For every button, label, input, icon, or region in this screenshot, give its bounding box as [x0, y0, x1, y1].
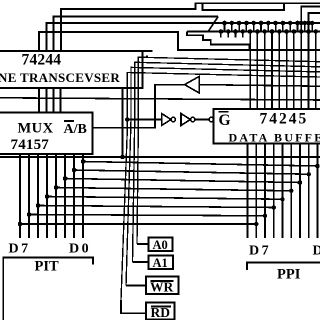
bus line 9 — [20, 223, 256, 225]
wire address bracket 2 — [47, 23, 320, 51]
bus line 7 — [38, 206, 274, 208]
junction dots PPI cascade — [254, 164, 320, 226]
wire RD to inverter chain — [127, 119, 161, 121]
wire data drops to 74245 top pins — [221, 32, 316, 110]
speck — [146, 55, 148, 57]
junction dot RD inverter tap — [125, 117, 129, 121]
svg-text:A/B: A/B — [64, 122, 87, 137]
wire A0 stub — [137, 243, 149, 245]
bus line 2 — [83, 162, 318, 167]
PIT bracket — [3, 258, 93, 320]
bus line 4 — [65, 179, 300, 183]
wire right edge entry 1 — [301, 7, 320, 32]
svg-text:A0: A0 — [153, 238, 168, 252]
svg-text:PIT: PIT — [35, 259, 60, 275]
wire WR stub — [126, 285, 146, 287]
wire bus rail B — [187, 31, 320, 33]
register box WR — [146, 277, 179, 295]
wire jog branch — [203, 3, 285, 10]
bus line 6 — [47, 197, 283, 200]
bus line 8 — [29, 215, 265, 216]
svg-text:74245: 74245 — [260, 111, 309, 128]
wire right edge entry 2 — [309, 13, 320, 32]
inverter U6a — [162, 114, 176, 126]
buffer U5 (left pointing) — [93, 77, 320, 128]
wire A1 stub — [133, 261, 149, 263]
svg-text:G: G — [219, 112, 231, 129]
svg-text:D0: D0 — [69, 242, 91, 257]
svg-text:74157: 74157 — [11, 137, 50, 153]
inverter U6b — [181, 114, 195, 126]
wire 74244 to mux pins — [39, 88, 61, 113]
wire control line RD — [121, 73, 320, 301]
svg-text:A1: A1 — [153, 256, 168, 270]
svg-text:74244: 74244 — [22, 52, 62, 69]
data buffer U3 74245 — [214, 109, 320, 144]
register box RD — [146, 303, 175, 320]
wire bus diagonal — [208, 17, 218, 32]
junction stubs rail A to rail B — [225, 23, 313, 32]
junction dots rail A — [222, 21, 314, 26]
bus line 1 — [0, 156, 320, 158]
svg-text:D7: D7 — [9, 242, 31, 257]
register box A0 — [149, 238, 173, 253]
wire 74244 tap to bus line 1 — [122, 88, 124, 157]
svg-text:PPI: PPI — [277, 267, 301, 283]
wire address bracket 4 — [61, 3, 320, 51]
wire control line WR — [126, 67, 320, 285]
mux U2 74157 — [0, 113, 93, 155]
svg-text:DATA BUFFER: DATA BUFFER — [229, 130, 320, 144]
wire box top stub — [143, 50, 153, 52]
PPI bracket — [247, 263, 320, 271]
junction dot bus line 1 — [120, 155, 124, 159]
junction dots rail B — [219, 29, 319, 34]
pin bubble G — [209, 117, 213, 121]
wire horizontal mid bus — [0, 98, 320, 100]
wire address bracket 3 — [54, 17, 219, 52]
svg-text:D7: D7 — [249, 244, 271, 259]
wire control line A1 — [133, 62, 320, 262]
wire mux output pins to PIT — [20, 154, 83, 238]
register box A1 — [149, 256, 174, 271]
bus line 3 — [74, 170, 309, 174]
wire bus staircase — [187, 32, 250, 51]
wire address bracket 1 — [39, 32, 320, 51]
bus line 5 — [56, 188, 291, 191]
svg-text:D: D — [313, 244, 320, 259]
junction dots PIT cascade — [18, 159, 85, 226]
svg-text:MUX: MUX — [18, 121, 54, 137]
svg-text:NE TRANSCEVSER: NE TRANSCEVSER — [0, 70, 120, 85]
wire 74245 pins to PPI — [248, 144, 318, 239]
wire RD jog to box — [121, 300, 146, 313]
wire inverter chain to G pin — [195, 119, 209, 121]
line transceiver U1 74244 — [0, 51, 143, 88]
wire control line A0 — [137, 57, 320, 244]
